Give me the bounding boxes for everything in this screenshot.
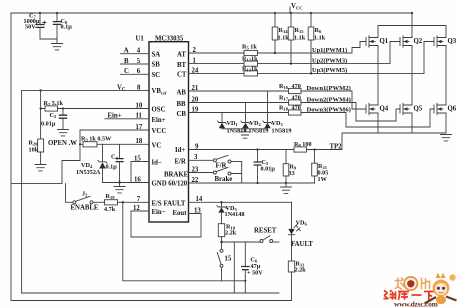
svg-text:Ein+: Ein+ bbox=[108, 113, 122, 120]
wire Down2 to Q5 gate bbox=[356, 103, 400, 122]
svg-text:R17: R17 bbox=[279, 94, 289, 101]
transistor Q2 bbox=[400, 36, 423, 47]
svg-text:14: 14 bbox=[196, 196, 203, 203]
resistor R15 1.1k bbox=[288, 12, 306, 64]
pin 20 BB bbox=[177, 96, 199, 107]
wire left outer vertical bbox=[10, 13, 12, 301]
svg-text:RESET: RESET bbox=[254, 228, 277, 235]
pin 10 OSC bbox=[136, 102, 166, 113]
svg-text:Q5: Q5 bbox=[414, 105, 423, 112]
svg-text:0.1μ: 0.1μ bbox=[106, 164, 118, 171]
wire GND rail pin16 bbox=[103, 182, 150, 184]
svg-text:2.2k: 2.2k bbox=[295, 267, 307, 274]
pin 14 FAULT bbox=[164, 196, 292, 207]
svg-text:Q4: Q4 bbox=[380, 105, 389, 112]
ground (C4 rail) bbox=[114, 187, 125, 193]
pin 11 Ein+ bbox=[105, 113, 166, 124]
svg-text:E/R: E/R bbox=[175, 158, 186, 165]
resistor R14 1.1k bbox=[272, 12, 289, 53]
svg-text:Up3(PWM5): Up3(PWM5) bbox=[312, 67, 347, 74]
svg-text:5: 5 bbox=[137, 58, 141, 65]
transistor Q4 bbox=[366, 103, 389, 114]
switch Brake bbox=[213, 162, 241, 184]
svg-text:VD3: VD3 bbox=[272, 120, 284, 127]
svg-text:www.dzsc.com: www.dzsc.com bbox=[394, 299, 439, 308]
node C input pin 6 bbox=[120, 68, 160, 79]
switch RESET bbox=[254, 228, 277, 243]
transistor Q5 bbox=[400, 103, 423, 114]
svg-text:BB: BB bbox=[177, 101, 187, 108]
ground (R20) bbox=[35, 165, 46, 171]
pin 21 AB bbox=[177, 85, 199, 96]
svg-text:Q2: Q2 bbox=[414, 38, 423, 45]
wire VCC bus drop to drain rail bbox=[411, 13, 413, 38]
svg-text:J2: J2 bbox=[82, 191, 88, 198]
svg-text:R20: R20 bbox=[29, 140, 39, 147]
op-amp U1 MC33035 IC body bbox=[149, 42, 189, 222]
svg-text:SA: SA bbox=[152, 51, 161, 58]
svg-text:470: 470 bbox=[292, 94, 301, 101]
pin 15 Id- bbox=[131, 155, 162, 182]
svg-text:9: 9 bbox=[195, 143, 199, 150]
capacitor C6 bbox=[241, 242, 263, 293]
wire phase C vertical bbox=[445, 46, 447, 106]
svg-text:R5 1k: R5 1k bbox=[242, 43, 257, 50]
svg-text:470: 470 bbox=[292, 104, 301, 111]
wire Down1 to Q4 gate bbox=[352, 91, 366, 109]
svg-text:CT: CT bbox=[177, 72, 187, 79]
svg-text:1.1k: 1.1k bbox=[314, 35, 326, 42]
svg-text:22: 22 bbox=[192, 177, 199, 184]
pin 24 CT bbox=[177, 67, 199, 78]
svg-text:VC: VC bbox=[152, 142, 162, 149]
svg-text:R18: R18 bbox=[279, 104, 289, 111]
wire phase A vertical bbox=[377, 46, 379, 106]
capacitor C4 bbox=[106, 144, 124, 182]
svg-text:15: 15 bbox=[134, 155, 141, 162]
svg-text:R16: R16 bbox=[279, 83, 289, 90]
resistor R2 bbox=[41, 90, 149, 139]
wire reset top rail bbox=[222, 241, 261, 243]
svg-text:Brake: Brake bbox=[215, 176, 233, 183]
LED VD6 bbox=[288, 202, 313, 261]
svg-text:TP2: TP2 bbox=[330, 144, 343, 151]
node VCC supply bbox=[290, 3, 302, 13]
pin 19 CB bbox=[177, 106, 199, 117]
transistor Q1 bbox=[366, 36, 389, 47]
svg-text:12: 12 bbox=[133, 205, 140, 212]
pin 22 60/120 line to sense rail bbox=[189, 177, 315, 184]
wire Vref (Vc) line to pin 8 bbox=[22, 89, 149, 91]
svg-text:23: 23 bbox=[192, 166, 199, 173]
wire bottom outer rail bbox=[11, 300, 292, 302]
wire diode common rail bbox=[222, 129, 268, 132]
svg-text:CB: CB bbox=[177, 111, 187, 118]
svg-text:18: 18 bbox=[136, 138, 143, 145]
wire low-side sources rail bbox=[342, 113, 446, 150]
pin 23 BRAKE bbox=[164, 166, 213, 178]
svg-text:AB: AB bbox=[177, 89, 187, 96]
svg-text:13: 13 bbox=[194, 207, 201, 214]
zener VD4 bbox=[76, 144, 107, 182]
node reset rail junction bbox=[220, 241, 222, 243]
svg-text:Q6: Q6 bbox=[448, 105, 457, 112]
pin 17 VCC bbox=[136, 124, 167, 135]
wire Ein- to Eout loop bbox=[131, 211, 201, 237]
capacitor C5 bbox=[254, 148, 276, 183]
resistor R3 bbox=[79, 136, 149, 147]
char wo bbox=[395, 278, 405, 290]
svg-text:33: 33 bbox=[289, 170, 295, 177]
diode VD3 1N5819 bbox=[263, 91, 292, 134]
svg-text:Eout: Eout bbox=[173, 210, 188, 217]
diode VD5 1N4148 bbox=[217, 202, 245, 223]
svg-text:470: 470 bbox=[292, 83, 301, 90]
wire left inner vertical (Vref) bbox=[21, 90, 23, 293]
ground (sense rail) bbox=[281, 182, 292, 194]
ground (C7/C8) bbox=[52, 44, 63, 50]
svg-text:Q3: Q3 bbox=[448, 38, 457, 45]
svg-text:ENABLE: ENABLE bbox=[71, 205, 99, 212]
red brand text weikuyixia bbox=[384, 290, 435, 300]
svg-text:VD6: VD6 bbox=[296, 219, 308, 226]
wire reset box left vertical bbox=[233, 242, 235, 293]
svg-text:1N4148: 1N4148 bbox=[225, 211, 245, 218]
svg-text:VD2: VD2 bbox=[250, 120, 262, 127]
svg-text:VCC: VCC bbox=[152, 128, 167, 135]
ground (diode rail) bbox=[240, 132, 251, 138]
svg-text:R2 5.1k: R2 5.1k bbox=[44, 100, 64, 107]
svg-text:GND 60/120: GND 60/120 bbox=[152, 181, 188, 188]
resistor R12 1k on BT bbox=[189, 56, 390, 66]
pin 13 Eout bbox=[173, 207, 202, 216]
svg-text:+ 50V: + 50V bbox=[247, 270, 263, 277]
char pian bbox=[422, 278, 430, 290]
resistor R21 0.05 1W bbox=[312, 148, 329, 183]
svg-text:4.7k: 4.7k bbox=[104, 206, 116, 213]
diode VD1 1N5819 bbox=[217, 113, 246, 135]
node FAULT/VD5 junction bbox=[220, 201, 222, 203]
wire VCC top bus bbox=[11, 12, 412, 14]
svg-text:C4: C4 bbox=[111, 154, 118, 161]
svg-text:Id+: Id+ bbox=[175, 147, 185, 154]
svg-text:C2: C2 bbox=[50, 112, 57, 119]
svg-text:0.01μ: 0.01μ bbox=[41, 121, 56, 128]
switch 15 (E/S jumper) bbox=[217, 249, 232, 280]
resistor R5 1k on AT bbox=[189, 43, 352, 55]
svg-text:17: 17 bbox=[136, 124, 143, 131]
resistor R6 1.1k bbox=[308, 12, 326, 74]
transistor Q3 bbox=[434, 36, 457, 47]
resistor R11 bbox=[288, 260, 306, 300]
svg-text:VCC: VCC bbox=[291, 3, 302, 11]
node Vref junction bbox=[39, 89, 41, 91]
pin 7 E/S bbox=[137, 196, 162, 207]
svg-text:MC33035: MC33035 bbox=[155, 35, 184, 42]
mascot bbox=[425, 273, 457, 305]
svg-text:VD1: VD1 bbox=[227, 120, 239, 127]
ground (Q6 source) bbox=[441, 135, 452, 141]
node junctions bbox=[40, 107, 42, 109]
wire phase B vertical bbox=[411, 46, 413, 106]
svg-text:Ein+: Ein+ bbox=[152, 117, 166, 124]
resistor R17 470 on BB bbox=[189, 94, 356, 105]
svg-text:BRAKE: BRAKE bbox=[164, 172, 189, 179]
watermark dzsc logo bbox=[384, 273, 457, 308]
svg-text:1N5352A: 1N5352A bbox=[76, 169, 101, 176]
svg-text:E/S: E/S bbox=[152, 200, 162, 207]
svg-text:FAULT: FAULT bbox=[291, 241, 313, 248]
svg-text:R121k: R121k bbox=[242, 56, 258, 63]
svg-text:0.01μ: 0.01μ bbox=[261, 166, 276, 173]
resistor R13 1k on CT bbox=[189, 66, 424, 77]
wire pin17 VCC link bbox=[11, 130, 149, 184]
svg-text:R15: R15 bbox=[295, 27, 305, 34]
svg-text:U1: U1 bbox=[136, 35, 145, 42]
svg-text:Id−: Id− bbox=[152, 160, 162, 167]
resistor R19 bbox=[93, 193, 149, 213]
node B input pin 5 bbox=[120, 58, 160, 69]
resistor R18 470 on CB bbox=[189, 104, 346, 115]
ground (C2) bbox=[58, 130, 69, 136]
capacitor C8 bbox=[40, 12, 72, 44]
svg-text:Down2(PWM4): Down2(PWM4) bbox=[307, 97, 351, 104]
switch F/R bbox=[213, 155, 241, 169]
svg-text:R3 1k 0.5W: R3 1k 0.5W bbox=[81, 136, 112, 143]
svg-text:50V: 50V bbox=[25, 24, 36, 31]
node A input pin 4 bbox=[120, 48, 160, 59]
svg-text:4: 4 bbox=[137, 48, 141, 55]
pin 2 AT bbox=[177, 47, 197, 58]
emblem circle bbox=[404, 277, 417, 290]
svg-text:B: B bbox=[124, 58, 129, 65]
wire bottom inner rail bbox=[22, 292, 279, 294]
svg-text:3: 3 bbox=[194, 154, 198, 161]
pin 3 F/R bbox=[175, 154, 214, 165]
svg-text:R131k: R131k bbox=[242, 66, 258, 73]
resistor R9 33 bbox=[283, 150, 297, 184]
capacitor C2 bbox=[41, 107, 67, 129]
svg-text:7: 7 bbox=[137, 196, 141, 203]
resistor R16 470 on AB bbox=[189, 83, 352, 94]
svg-text:Ein−: Ein− bbox=[152, 209, 166, 216]
svg-text:R6: R6 bbox=[315, 27, 322, 34]
switch J2 ENABLE bbox=[66, 184, 99, 212]
svg-text:2.2k: 2.2k bbox=[225, 230, 237, 237]
svg-text:1N5819: 1N5819 bbox=[272, 127, 292, 134]
svg-text:Up2(PWM3): Up2(PWM3) bbox=[312, 57, 347, 64]
transistor Q6 bbox=[434, 103, 457, 114]
pin 1 BT bbox=[177, 58, 197, 69]
svg-text:10: 10 bbox=[136, 102, 143, 109]
pin 8 Vref bbox=[137, 84, 167, 95]
svg-text:6: 6 bbox=[137, 68, 141, 75]
svg-text:C: C bbox=[124, 68, 129, 75]
pin 12 Ein- bbox=[131, 205, 166, 216]
wire Up1 to Q1 gate bbox=[352, 42, 366, 54]
pin 18 VC bbox=[136, 138, 162, 149]
svg-text:1W: 1W bbox=[318, 176, 328, 183]
svg-text:Down3(PWM6): Down3(PWM6) bbox=[307, 107, 351, 114]
pin 9 Id+ bbox=[175, 143, 342, 154]
svg-text:Up1(PWM1): Up1(PWM1) bbox=[312, 47, 347, 54]
svg-text:16: 16 bbox=[134, 176, 141, 183]
svg-text:1.1k: 1.1k bbox=[294, 35, 306, 42]
pin 16 GND bbox=[134, 176, 188, 187]
svg-text:VC: VC bbox=[117, 85, 126, 93]
svg-text:10k: 10k bbox=[29, 147, 39, 154]
wire Up3 to Q3 gate bbox=[424, 42, 434, 74]
wire Up2 to Q2 gate bbox=[390, 42, 400, 64]
svg-text:Down1(PWM2): Down1(PWM2) bbox=[307, 85, 351, 92]
resistor R8 100 bbox=[294, 141, 312, 152]
capacitor C7 bbox=[24, 12, 47, 39]
wire E/S return line bbox=[122, 201, 124, 203]
svg-text:AT: AT bbox=[177, 51, 186, 58]
svg-text:R14: R14 bbox=[279, 27, 289, 34]
svg-text:R8 100: R8 100 bbox=[294, 141, 312, 148]
svg-text:R19: R19 bbox=[106, 193, 116, 200]
svg-text:SB: SB bbox=[152, 62, 161, 69]
svg-text:BT: BT bbox=[177, 62, 187, 69]
svg-text:Q1: Q1 bbox=[380, 38, 389, 45]
resistor R20 pot bbox=[29, 139, 78, 165]
svg-text:0.1μ: 0.1μ bbox=[61, 24, 73, 31]
svg-text:OPEN .W: OPEN .W bbox=[48, 140, 77, 147]
svg-text:OSC: OSC bbox=[152, 107, 166, 114]
svg-text:SC: SC bbox=[152, 72, 161, 79]
resistor R10 bbox=[218, 223, 236, 249]
svg-text:1.1k: 1.1k bbox=[278, 35, 290, 42]
svg-text:8: 8 bbox=[137, 84, 141, 91]
svg-text:11: 11 bbox=[136, 113, 143, 120]
wire Down3 to Q6 gate bbox=[346, 109, 434, 127]
svg-text:FAULT: FAULT bbox=[164, 200, 186, 207]
diode VD2 1N5819 bbox=[241, 103, 269, 135]
svg-text:A: A bbox=[124, 48, 129, 55]
svg-text:15: 15 bbox=[225, 255, 232, 262]
